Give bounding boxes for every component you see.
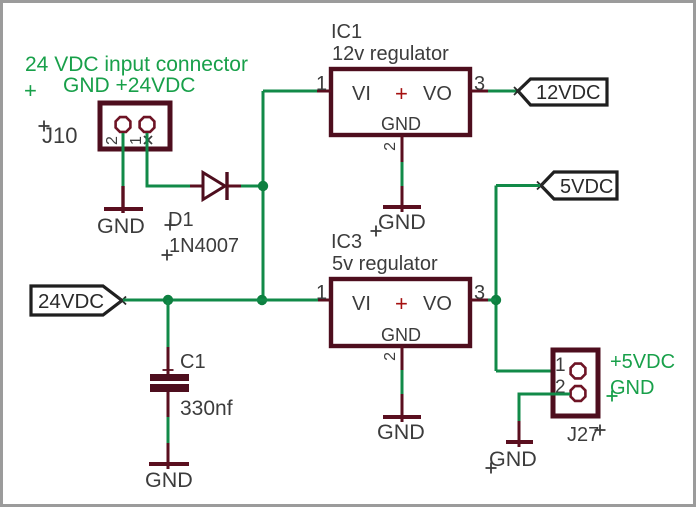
svg-text:+: + xyxy=(395,81,408,106)
svg-text:24VDC: 24VDC xyxy=(38,290,104,313)
pin 3 IC1 xyxy=(470,73,488,95)
value 1N4007 xyxy=(162,235,240,261)
wire J10 pin1 down and right to D1 xyxy=(147,133,191,186)
svg-text:1: 1 xyxy=(128,136,145,145)
wire 5VDC flag to node C xyxy=(496,184,540,187)
label: 24 VDC input connector heading xyxy=(25,53,248,97)
wire IC3 pin3 to node C xyxy=(488,299,496,302)
svg-text:5v regulator: 5v regulator xyxy=(332,253,438,275)
wire IC3 pin2 to ground xyxy=(401,370,404,394)
pad J27 pin 2 xyxy=(571,386,586,401)
wire J27 pin2 to ground xyxy=(519,394,570,421)
wire 24VDC rail xyxy=(123,299,318,302)
wire node D down to C1 xyxy=(167,300,170,347)
connector J10 body xyxy=(100,103,170,149)
op-amp? no: regulator IC1 box xyxy=(331,69,470,135)
svg-text:J27: J27 xyxy=(567,424,599,446)
junction node D (C1 tap) xyxy=(163,295,173,305)
wire node C down to J27 pin1 xyxy=(496,370,570,373)
svg-text:GND: GND xyxy=(381,114,421,134)
svg-text:GND: GND xyxy=(97,214,145,238)
capacitor C1 xyxy=(150,347,189,417)
net flag 12VDC xyxy=(514,79,607,105)
label J27 xyxy=(567,424,606,446)
ground GND (near J27) xyxy=(506,421,533,447)
pad J10 pin 1 xyxy=(140,117,155,132)
ground GND (under IC3) xyxy=(383,394,421,422)
wire IC1 pin3 to 12VDC flag xyxy=(488,90,517,93)
wire C1 to ground xyxy=(167,417,170,443)
svg-text:GND: GND xyxy=(145,468,193,492)
svg-text:VO: VO xyxy=(423,293,452,315)
wire node C vertical xyxy=(495,186,498,372)
svg-text:VI: VI xyxy=(352,293,371,315)
ground GND (under C1) xyxy=(149,443,189,469)
svg-text:2: 2 xyxy=(382,142,399,151)
svg-text:5VDC: 5VDC xyxy=(560,176,613,198)
svg-text:12v regulator: 12v regulator xyxy=(332,43,449,65)
svg-text:+5VDC: +5VDC xyxy=(610,351,675,373)
origin cross J10 xyxy=(144,136,152,144)
svg-text:+: + xyxy=(395,291,408,316)
label D1 xyxy=(165,209,194,231)
junction node B (on 24VDC rail) xyxy=(257,295,267,305)
svg-text:VO: VO xyxy=(423,83,452,105)
svg-text:VI: VI xyxy=(352,83,371,105)
ground GND (under IC1) xyxy=(383,186,421,212)
pad J10 pin 2 xyxy=(116,117,131,132)
pin 3 IC3 xyxy=(470,282,490,304)
junction node C (IC3 output) xyxy=(491,295,501,305)
label GND (green) xyxy=(607,377,655,402)
svg-text:2: 2 xyxy=(382,352,399,361)
svg-text:3: 3 xyxy=(474,73,485,95)
junction node A xyxy=(258,181,268,191)
wire D1 to node A xyxy=(241,185,263,188)
regulator IC3 box xyxy=(331,279,470,346)
label J10 xyxy=(39,121,78,149)
svg-text:24 VDC input connector: 24 VDC input connector xyxy=(25,53,248,76)
svg-text:IC3: IC3 xyxy=(331,231,362,253)
svg-text:330nf: 330nf xyxy=(180,397,233,420)
svg-text:D1: D1 xyxy=(168,209,194,231)
svg-text:IC1: IC1 xyxy=(331,21,362,43)
svg-text:3: 3 xyxy=(474,282,485,304)
svg-text:2: 2 xyxy=(104,136,121,145)
diode D1 xyxy=(190,172,241,200)
svg-text:C1: C1 xyxy=(180,351,206,373)
connector J27 body xyxy=(553,350,598,416)
ground GND (under J10) xyxy=(104,186,143,213)
svg-text:1: 1 xyxy=(316,73,327,95)
pin 1 IC1 xyxy=(316,73,331,95)
svg-text:1: 1 xyxy=(555,355,566,376)
pin 1 IC3 xyxy=(316,282,331,304)
svg-text:GND +24VDC: GND +24VDC xyxy=(63,74,195,97)
wire node A to IC1 pin 1 xyxy=(263,90,318,93)
wire J10 pin2 to GND xyxy=(122,133,125,186)
svg-text:1N4007: 1N4007 xyxy=(169,235,239,257)
pin 2 IC3 xyxy=(382,346,402,370)
svg-text:12VDC: 12VDC xyxy=(536,82,600,104)
svg-text:GND: GND xyxy=(377,420,425,444)
net flag 24VDC xyxy=(31,286,126,315)
pin 2 IC1 xyxy=(382,135,402,162)
net flag 5VDC xyxy=(537,172,617,199)
svg-text:+: + xyxy=(24,78,37,103)
wire node A vertical xyxy=(262,91,265,300)
pad J27 pin 1 xyxy=(571,364,586,379)
wire IC1 pin2 to ground xyxy=(401,162,404,186)
svg-text:GND: GND xyxy=(381,325,421,345)
svg-text:GND: GND xyxy=(378,210,426,234)
